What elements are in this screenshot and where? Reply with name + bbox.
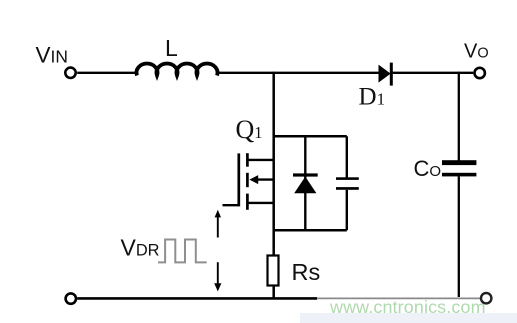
terminal bottom-left — [66, 293, 76, 303]
transistor Q1 source lead — [247, 202, 274, 204]
transistor Q1 gate bar — [237, 153, 240, 206]
transistor Q1 drain lead — [247, 159, 274, 161]
svg-text:www.cntronics.com: www.cntronics.com — [329, 297, 486, 317]
capacitor CO — [442, 160, 476, 165]
svg-text:Rs: Rs — [292, 259, 321, 285]
resistor RS — [268, 256, 279, 286]
svg-text:CO: CO — [414, 156, 442, 181]
transistor Q1 channel bar (dashed) — [246, 153, 249, 167]
svg-text:VDR: VDR — [121, 234, 160, 260]
wire CO to bottom rail — [458, 176, 460, 297]
transistor Q1 gate lead — [223, 204, 239, 206]
arrow VDR down — [217, 262, 219, 284]
watermark band — [300, 313, 517, 323]
arrow VDR up — [217, 217, 219, 238]
terminal VO — [475, 68, 485, 78]
terminal bottom-right — [481, 293, 491, 303]
wire diode to VO — [393, 72, 474, 74]
svg-text:VO: VO — [464, 41, 489, 63]
wire top-left (VIN to inductor) — [77, 72, 138, 74]
wire bottom rail (black part) — [77, 297, 317, 300]
waveform VDR pulse (gray) — [158, 240, 207, 263]
svg-text:L: L — [165, 35, 178, 61]
wire capacitor branch top — [346, 136, 348, 177]
svg-text:Q1: Q1 — [236, 115, 263, 144]
transistor Q1 body lead with arrow — [252, 178, 275, 180]
wire parallel-group bottom — [274, 229, 347, 232]
terminal VIN — [65, 68, 75, 78]
wire main vertical (node to bottom rail) — [272, 72, 275, 298]
wire bottom rail (gray part under watermark) — [317, 297, 480, 299]
svg-text:VIN: VIN — [36, 42, 68, 67]
body diode of Q1 — [293, 173, 318, 176]
capacitor (Q1 output capacitance) — [336, 177, 359, 180]
wire parallel-group top — [274, 135, 347, 138]
wire body-diode branch — [304, 136, 306, 230]
svg-text:D1: D1 — [359, 84, 386, 111]
wire capacitor branch bottom — [346, 190, 348, 230]
wire output vertical (top rail to CO) — [458, 72, 460, 161]
inductor L — [137, 63, 218, 75]
wire inductor to diode D1 — [217, 72, 380, 74]
diode D1 — [379, 65, 391, 83]
